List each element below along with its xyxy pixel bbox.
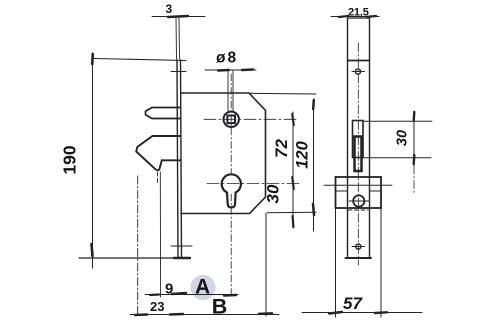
dimension 3 extension lines — [175, 18, 178, 59]
euro profile keyhole — [222, 174, 241, 207]
svg-text:120: 120 — [294, 140, 312, 168]
svg-text:9: 9 — [165, 281, 173, 298]
small latch bolt — [146, 108, 181, 119]
faceplate (front view, 3mm thick) — [177, 60, 178, 258]
extension line case right edge down to B — [265, 214, 267, 317]
svg-text:72: 72 — [272, 139, 291, 158]
hook bolt — [136, 136, 180, 170]
spindle hole (square follower) — [224, 112, 239, 127]
svg-text:23: 23 — [150, 299, 164, 314]
svg-text:30: 30 — [264, 184, 283, 203]
inner step left — [337, 190, 347, 192]
dimension 30 extension lines (side view) — [363, 120, 432, 122]
svg-text:ø8: ø8 — [216, 50, 238, 67]
bolt slot — [353, 121, 364, 158]
dimension 190 line — [92, 53, 94, 268]
lock case outline (front view) — [181, 93, 266, 214]
faceplate strip (side view) — [347, 18, 349, 258]
svg-text:190: 190 — [60, 145, 80, 174]
spindle centre line horizontal — [204, 118, 298, 120]
dimension o8 extension lines — [227, 71, 229, 112]
extension lines case edges down to 57 — [335, 208, 337, 317]
extension line hook notch down to 9 — [159, 172, 161, 297]
faceplate bottom cap — [346, 257, 372, 259]
extension line case bottom to 120 — [267, 211, 316, 214]
hook tip hidden line — [157, 172, 159, 185]
centre line vertical (side view) — [357, 43, 359, 265]
extension line top (plate top) — [94, 59, 186, 61]
keyhole centre line horizontal — [207, 183, 299, 185]
dimension 3 line — [152, 16, 205, 18]
dimension o8 line — [205, 69, 256, 71]
inner step right — [370, 190, 380, 192]
svg-text:57: 57 — [343, 294, 363, 313]
case centre line horizontal — [324, 184, 392, 186]
lock case (side view) — [336, 177, 382, 208]
extension line bottom (plate bottom) — [79, 257, 186, 259]
extension line case top to 120 — [250, 92, 316, 95]
dimension 72 line — [292, 112, 294, 228]
dimension 57 line — [302, 312, 422, 314]
dimension 120 line — [313, 99, 315, 231]
dimension 23 / B line — [130, 314, 279, 316]
svg-text:B: B — [212, 295, 228, 319]
hook edge centre line down to 23 — [137, 176, 139, 315]
spindle screw hole (side view) — [353, 195, 364, 206]
screw position tick bottom — [171, 245, 192, 247]
spindle centre line vertical — [230, 74, 232, 173]
top screw hole — [355, 69, 360, 74]
svg-text:30: 30 — [395, 130, 411, 146]
node A highlight — [190, 275, 215, 300]
hidden edge below case — [348, 209, 368, 211]
dimension 21,5 line — [331, 16, 379, 18]
dimension 9 / A line — [145, 294, 238, 296]
hook bolt (side view) — [355, 137, 362, 172]
screw position tick top — [171, 71, 186, 73]
bottom screw hole — [356, 244, 361, 249]
case top edge (side view) — [348, 60, 370, 62]
dimension 30 line (side view) — [413, 111, 415, 166]
svg-text:A: A — [195, 276, 210, 299]
svg-text:3: 3 — [166, 2, 173, 16]
